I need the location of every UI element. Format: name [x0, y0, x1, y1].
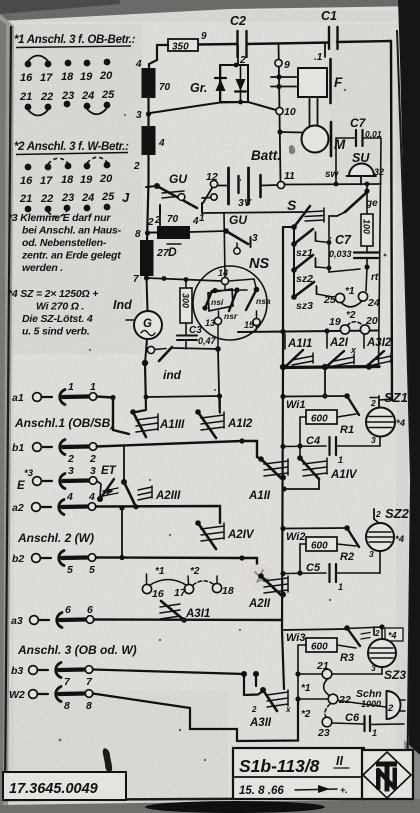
note heading *1 Anschl.3 f. OB-Betr. [14, 34, 136, 48]
svg-text:od. Nebenstellen-: od. Nebenstellen- [22, 237, 107, 249]
svg-text:24: 24 [81, 90, 94, 102]
svg-text:22: 22 [40, 193, 53, 205]
svg-text:ind: ind [163, 368, 182, 382]
resistor R2 600 [300, 537, 356, 573]
svg-text:70: 70 [167, 214, 179, 225]
svg-text:4: 4 [192, 216, 199, 227]
contact 2 of SZ2 [374, 509, 381, 519]
rectifier Gr [190, 63, 248, 105]
svg-text:17: 17 [40, 175, 53, 187]
wire stub node14 up to S rail [224, 213, 225, 277]
svg-text:GU: GU [169, 172, 187, 186]
resistor R1 600 [300, 410, 356, 458]
wire top rail mid segment [247, 43, 329, 45]
resistor 4 (block) [142, 126, 166, 155]
wire R70 to node 3 [147, 98, 149, 126]
svg-text:14: 14 [218, 268, 228, 278]
svg-text:1: 1 [338, 582, 343, 592]
scan edge bottom band [0, 799, 420, 813]
svg-text:nsa: nsa [256, 296, 271, 306]
wire C7b branch vertical [329, 216, 360, 272]
terminal field *1 solder dots rows 16-20 / 21-25 [19, 59, 115, 111]
wire branch to M [280, 131, 303, 134]
strap arc 24-25 (solid) [87, 108, 107, 114]
wire rail under NS [238, 331, 378, 333]
node 10 [276, 107, 283, 114]
contact ge [329, 186, 378, 216]
capacitor C2 [230, 14, 247, 66]
svg-text:11: 11 [284, 170, 295, 182]
relay contact A1II [248, 456, 288, 502]
svg-text:22: 22 [338, 694, 351, 706]
svg-text:20: 20 [99, 173, 113, 185]
svg-text:2: 2 [387, 703, 394, 714]
relay set A1I1 [285, 334, 313, 366]
svg-text:*2 Anschl. 3 f. W-Betr.:: *2 Anschl. 3 f. W-Betr.: [14, 141, 129, 153]
wire right main bus [391, 41, 392, 400]
relay contact A2III [121, 446, 181, 507]
svg-text:3: 3 [369, 549, 374, 559]
wire node7 to NS/300 rail [147, 278, 222, 281]
svg-text:12: 12 [206, 171, 218, 183]
strap arc 17-18 (dashed) [48, 158, 68, 164]
contact Wi2 [286, 525, 359, 547]
svg-text:19: 19 [80, 174, 93, 186]
svg-text:23: 23 [61, 90, 74, 102]
svg-text:13: 13 [205, 318, 215, 328]
svg-text:20: 20 [365, 315, 378, 327]
svg-text:6: 6 [87, 604, 93, 616]
svg-text:3V: 3V [238, 197, 252, 209]
svg-text:25: 25 [101, 191, 115, 203]
switch GU lower [223, 213, 258, 254]
svg-text:1: 1 [372, 728, 377, 738]
svg-text:zentr. an Erde gelegt: zentr. an Erde gelegt [21, 250, 121, 262]
svg-text:3: 3 [68, 465, 74, 477]
battery 3V [218, 168, 278, 209]
strap arc 21-22 (solid) [28, 110, 48, 116]
wire top rail right segment [337, 41, 391, 42]
ink blot left bottom [103, 748, 112, 772]
svg-text:18: 18 [61, 174, 74, 186]
relay contact A1III [130, 409, 185, 437]
svg-text:3: 3 [252, 233, 258, 244]
contact sz3 [291, 282, 333, 312]
terminal field *2 solder dots rows 16-20 / 21-25 [19, 162, 115, 213]
svg-text:24: 24 [367, 297, 380, 309]
svg-text:a1: a1 [12, 392, 24, 404]
svg-text:4: 4 [158, 138, 165, 149]
svg-text:*4: *4 [388, 631, 397, 641]
svg-text:Batt.: Batt. [251, 148, 281, 163]
svg-text:1: 1 [90, 381, 96, 393]
svg-text:4: 4 [66, 491, 73, 503]
svg-text:A1I1: A1I1 [287, 338, 312, 350]
scan edge left strip [0, 14, 14, 813]
svg-text:E: E [17, 480, 25, 492]
svg-text:A1IV: A1IV [330, 469, 358, 481]
svg-text:C4: C4 [306, 435, 320, 447]
relay contact A3I1 [160, 601, 210, 620]
svg-text:Wi3: Wi3 [286, 632, 305, 644]
button SU [325, 151, 384, 185]
wire S pivot chain [293, 227, 295, 297]
node 7 [144, 275, 149, 280]
relay contact A2II [248, 573, 288, 610]
svg-text:b2: b2 [12, 553, 24, 565]
svg-text:A1II: A1II [248, 490, 271, 502]
svg-text:SZ3: SZ3 [384, 668, 406, 682]
svg-text:5: 5 [89, 564, 95, 576]
svg-text:C7: C7 [350, 116, 367, 130]
logo TN (Telefonbau u. Normalzeit) [362, 750, 413, 799]
contact ET [97, 465, 118, 502]
svg-text:A1I2: A1I2 [227, 418, 253, 430]
wire strap a2 to b2 [121, 510, 123, 558]
wire a1 to A1III [97, 397, 129, 435]
node 15 [253, 318, 260, 325]
svg-text:3: 3 [136, 110, 142, 121]
terminal a3 [11, 604, 94, 628]
svg-text:*2: *2 [301, 709, 311, 720]
svg-text:ET: ET [101, 465, 117, 477]
svg-text:A3I1: A3I1 [185, 608, 210, 620]
svg-text:C7: C7 [335, 233, 352, 247]
node 13 [214, 317, 221, 324]
svg-text:C3: C3 [189, 325, 202, 336]
contact sz1 [291, 229, 329, 259]
svg-text:NS: NS [249, 256, 269, 272]
wire branches to F [271, 76, 298, 78]
svg-text:8: 8 [135, 229, 141, 240]
svg-text:II: II [336, 754, 343, 768]
svg-text:werden .: werden . [22, 262, 63, 274]
generator G [126, 311, 162, 339]
wire ind contact to junction [172, 348, 218, 349]
svg-text:*2: *2 [190, 566, 200, 577]
contact ind [142, 346, 182, 382]
svg-text:23: 23 [317, 727, 330, 739]
svg-text:SZ2: SZ2 [385, 506, 410, 521]
wire top rail left segment [197, 43, 237, 46]
svg-text:*1 Anschl. 3 f. OB-Betr.:: *1 Anschl. 3 f. OB-Betr.: [14, 34, 136, 46]
relay contact A2IV [195, 520, 255, 549]
svg-text:15: 15 [244, 320, 255, 330]
wire elbow 350 to R70 [149, 45, 168, 68]
relay set A2I [327, 334, 357, 366]
wire GU1 contact to S [202, 212, 303, 213]
smudge above battery [289, 145, 295, 154]
strap arc 19-20 (dashed) [87, 157, 107, 163]
node 21 row [295, 671, 300, 676]
svg-text:A1III: A1III [159, 419, 185, 431]
wire b1 to A1II [97, 441, 261, 459]
svg-text:Die SZ-Lötst. 4: Die SZ-Lötst. 4 [22, 313, 93, 325]
svg-text:25: 25 [101, 89, 115, 101]
svg-text:Wi2: Wi2 [286, 531, 305, 543]
svg-text:3: 3 [371, 663, 376, 673]
svg-text:0,033: 0,033 [329, 249, 352, 259]
svg-text:+.: +. [340, 785, 348, 795]
strap arc 22-23 (dashed) [48, 211, 67, 217]
wire a2 to A2IV [96, 506, 220, 523]
wire left bus GU to node 8 [147, 182, 149, 240]
contact 21 [322, 669, 332, 679]
svg-text:32: 32 [374, 167, 384, 177]
svg-text:*4: *4 [396, 418, 406, 429]
wire A1IV to center bus [284, 479, 319, 489]
svg-text:3: 3 [90, 465, 96, 477]
wire ind pivot down to A1III [136, 363, 146, 412]
contact circle under node 12 [211, 194, 217, 200]
terminal b3 [11, 663, 93, 689]
contact group 16/17/18 with straps [142, 566, 233, 600]
contact pair 19-20 with strap *2 [329, 310, 378, 334]
contact 22 [328, 694, 338, 704]
svg-text:4: 4 [135, 59, 142, 70]
frame bottom [4, 798, 409, 800]
svg-text:70: 70 [159, 82, 171, 93]
svg-text:19: 19 [80, 71, 93, 83]
wire GU2 contact to D [159, 213, 161, 227]
svg-text:C5: C5 [306, 562, 321, 574]
svg-text:18: 18 [61, 71, 74, 83]
svg-text:27: 27 [156, 247, 170, 259]
svg-text:C6: C6 [345, 712, 360, 724]
wire 13 to junction [217, 325, 219, 350]
switch S [287, 197, 324, 230]
svg-text:rt: rt [371, 272, 379, 283]
svg-text:F: F [334, 75, 343, 90]
svg-text:17: 17 [174, 587, 187, 599]
svg-text:x: x [285, 705, 291, 714]
svg-text:2: 2 [89, 453, 96, 465]
note heading *2 Anschl.3 f. W-Betr. [14, 141, 129, 155]
resistor 300 [180, 280, 192, 336]
frame left [5, 26, 11, 799]
svg-text:R1: R1 [340, 424, 354, 436]
junction A2II arm on bus [280, 592, 286, 598]
svg-text:R2: R2 [340, 551, 354, 563]
svg-text:Wi 270 Ω .: Wi 270 Ω . [36, 301, 84, 313]
svg-text:24: 24 [81, 192, 94, 204]
svg-text:W2: W2 [9, 689, 25, 701]
svg-text:0,47: 0,47 [198, 336, 217, 346]
smudge correction blob [248, 564, 274, 590]
svg-text:Anschl.1 (OB/SB): Anschl.1 (OB/SB) [14, 416, 114, 430]
contact Wi3 [286, 625, 370, 646]
contact 2 of SZ1 [370, 396, 392, 408]
note *4 SZ value [8, 288, 98, 338]
strap arc 16-17 (solid) [28, 56, 48, 62]
svg-text:21: 21 [316, 660, 329, 672]
note *3 Klemme E [8, 212, 122, 274]
svg-text:600: 600 [311, 642, 328, 653]
svg-text:A2IV: A2IV [227, 529, 255, 541]
node 14 [221, 277, 228, 284]
svg-text:b3: b3 [11, 665, 23, 677]
contact 23 [322, 717, 332, 727]
terminal W2 [9, 687, 93, 713]
wire center bus vertical [282, 227, 284, 689]
contact sz2 [291, 255, 329, 285]
svg-text:16: 16 [20, 175, 33, 187]
wire bus to Wi1 row [324, 367, 326, 396]
svg-text:u. 5 sind verb.: u. 5 sind verb. [22, 326, 90, 338]
svg-text:8: 8 [64, 700, 70, 712]
svg-text:100: 100 [362, 219, 372, 234]
strap arc 21-22 [324, 679, 329, 696]
junction A1II arm on bus [280, 475, 286, 481]
svg-text:1: 1 [68, 381, 74, 393]
wire node7 to generator G [147, 278, 148, 311]
svg-text:*4 SZ = 2× 1250Ω +: *4 SZ = 2× 1250Ω + [8, 288, 98, 300]
svg-text:1: 1 [199, 213, 205, 224]
svg-text:A3II: A3II [249, 717, 272, 729]
svg-text:8: 8 [86, 700, 92, 712]
relay contact A1I2 [195, 396, 253, 438]
resistor 350 [168, 39, 198, 53]
wire C7a left leg [336, 138, 356, 184]
svg-text:600: 600 [311, 414, 328, 425]
svg-text:*3: *3 [24, 468, 34, 479]
scan edge right black band [398, 0, 420, 813]
contact nsa [246, 287, 271, 310]
wire a3 row [94, 618, 282, 621]
bell SZ3 [368, 627, 406, 682]
wire a1 continuation to A1I2 [146, 396, 220, 397]
relay set A3I2 [364, 334, 392, 366]
node 11 [277, 181, 284, 188]
resistor 27 (block) [140, 240, 170, 276]
svg-text:20: 20 [99, 70, 113, 82]
resistor 70 (block) [142, 68, 171, 98]
svg-text:17.3645.0049: 17.3645.0049 [9, 781, 98, 797]
capacitor C1 [321, 9, 338, 49]
contact 2 tick and *4 box of SZ3 [347, 624, 403, 641]
svg-text:Anschl. 3 (OB od. W): Anschl. 3 (OB od. W) [17, 643, 137, 657]
svg-text:nsr: nsr [224, 311, 238, 321]
wire Wi2 row [283, 527, 346, 530]
receiver F [298, 59, 343, 103]
capacitor C4 row [280, 435, 380, 465]
svg-text:Wi1: Wi1 [286, 399, 305, 411]
strap arc 22-23 dashed [325, 704, 330, 718]
capacitor C5 row [280, 562, 380, 592]
svg-text:.1: .1 [314, 52, 323, 63]
svg-text:2: 2 [67, 453, 74, 465]
svg-text:16: 16 [152, 588, 164, 600]
capacitor C6 [332, 712, 404, 738]
contact nsr [229, 290, 237, 311]
svg-text:Anschl. 2 (W): Anschl. 2 (W) [17, 531, 94, 545]
terminal b2 [12, 551, 96, 577]
svg-text:SZ1: SZ1 [384, 390, 408, 405]
relay contact A3II [249, 687, 291, 729]
terminal a2 [12, 491, 96, 515]
svg-text:J: J [122, 190, 130, 205]
wire Wi3 row [282, 629, 346, 630]
wire W2 riser [93, 694, 298, 742]
wire 15 to rail [255, 326, 258, 332]
svg-text:*2: *2 [346, 310, 356, 321]
svg-text:23: 23 [61, 192, 74, 204]
terminal a1 [12, 381, 97, 405]
svg-text:*4: *4 [395, 534, 405, 545]
svg-text:18: 18 [222, 585, 234, 597]
wire C2 to Gr box [237, 45, 239, 64]
contact nsi [202, 289, 233, 311]
svg-text:S1b-113/8: S1b-113/8 [239, 756, 320, 776]
svg-text:2: 2 [375, 509, 381, 519]
scan edge top band [0, 0, 420, 21]
resistor 100 [361, 191, 373, 246]
node 3 [146, 111, 151, 116]
frame right [397, 30, 411, 798]
node rt [364, 264, 369, 269]
bell SZ2 [366, 506, 410, 573]
wire b3 to A3II [93, 670, 263, 696]
wire S pivot to center bus [283, 226, 294, 228]
svg-text:a3: a3 [11, 615, 23, 627]
svg-text:5: 5 [67, 564, 73, 576]
svg-text:25: 25 [323, 294, 336, 306]
svg-text:2: 2 [370, 398, 376, 408]
svg-text:10: 10 [284, 106, 296, 118]
svg-text:G: G [143, 318, 152, 330]
svg-text:19: 19 [329, 316, 341, 328]
svg-text:A2II: A2II [248, 598, 271, 610]
svg-text:Ind: Ind [113, 298, 132, 312]
wire b2 to A2II [96, 558, 261, 577]
svg-text:300: 300 [181, 293, 191, 308]
svg-text:nsi: nsi [211, 297, 224, 307]
wire R4 to GU pivot [147, 155, 149, 182]
svg-text:3: 3 [371, 435, 376, 445]
terminal E [17, 465, 97, 492]
svg-text:bei Anschl. an Haus-: bei Anschl. an Haus- [22, 225, 122, 237]
svg-text:*3 Klemme E darf nur: *3 Klemme E darf nur [8, 212, 111, 224]
bell SZ1 [366, 390, 408, 446]
wire C7a right leg down right side [363, 138, 382, 367]
svg-text:7: 7 [133, 274, 139, 285]
terminal b1 [12, 440, 97, 466]
svg-text:22: 22 [40, 91, 53, 103]
svg-text:4: 4 [88, 491, 95, 503]
svg-text:R3: R3 [340, 652, 354, 664]
svg-text:1: 1 [338, 455, 343, 465]
svg-text:*1: *1 [155, 566, 165, 577]
wire lower bus of inner box [282, 367, 379, 368]
wire vertical node9/node10/node11 [279, 44, 281, 182]
svg-text:sz3: sz3 [296, 300, 313, 312]
switch GU upper [146, 172, 205, 226]
svg-text:sw: sw [325, 169, 340, 180]
svg-text:17: 17 [40, 72, 53, 84]
svg-text:350: 350 [172, 42, 189, 53]
svg-text:Gr.: Gr. [190, 81, 207, 95]
relay contact A1IV [297, 455, 358, 481]
inductor D [147, 214, 226, 259]
svg-text:C2: C2 [230, 14, 246, 28]
wire rt down to contact 24 [366, 267, 367, 291]
svg-text:9: 9 [284, 59, 290, 71]
svg-text:6: 6 [65, 604, 71, 616]
contact Wi1 [286, 393, 359, 415]
svg-text:a2: a2 [12, 502, 24, 514]
node 9 [275, 59, 282, 66]
contact pair 25-24 with strap *1 [323, 286, 380, 309]
